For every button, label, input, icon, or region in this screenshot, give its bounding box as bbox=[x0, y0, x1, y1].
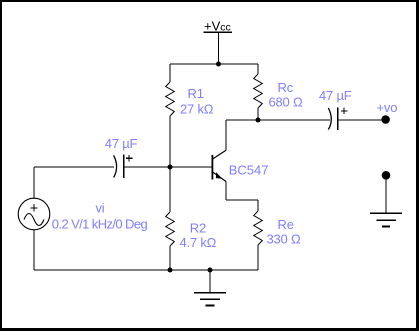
junction R2 ground bbox=[168, 268, 173, 273]
svg-text:R2: R2 bbox=[190, 221, 206, 236]
svg-text:0.2 V/1 kHz/0 Deg: 0.2 V/1 kHz/0 Deg bbox=[52, 217, 148, 232]
svg-text:+Vcc: +Vcc bbox=[204, 19, 231, 34]
svg-text:47 µF: 47 µF bbox=[319, 88, 352, 103]
svg-text:330 Ω: 330 Ω bbox=[267, 232, 302, 247]
ground right bbox=[370, 179, 402, 226]
capacitor C1 47uF input bbox=[114, 155, 133, 179]
resistor R1 bbox=[166, 64, 175, 167]
terminal ground reference bbox=[382, 171, 391, 180]
junction top rail bbox=[216, 62, 221, 67]
wire input bbox=[34, 166, 114, 168]
transistor Q1 BC547 bbox=[212, 120, 227, 200]
svg-text:27 kΩ: 27 kΩ bbox=[180, 101, 214, 116]
source V1 sine bbox=[18, 198, 50, 230]
wire base bbox=[124, 166, 212, 168]
svg-text:Rc: Rc bbox=[278, 80, 294, 95]
svg-text:+vo: +vo bbox=[377, 100, 398, 115]
junction base node bbox=[168, 165, 173, 170]
junction ground center bbox=[208, 268, 213, 273]
power +Vcc bbox=[203, 19, 232, 65]
svg-text:BC547: BC547 bbox=[229, 163, 269, 178]
svg-text:4.7 kΩ: 4.7 kΩ bbox=[180, 235, 217, 250]
resistor Rc bbox=[254, 64, 263, 120]
terminal +vo bbox=[381, 115, 390, 124]
svg-text:680 Ω: 680 Ω bbox=[269, 95, 304, 110]
wire ground rail bbox=[34, 269, 258, 271]
wire output bbox=[339, 119, 382, 121]
wire emitter run bbox=[226, 199, 258, 201]
svg-text:Re: Re bbox=[278, 217, 294, 232]
wire source top lead bbox=[33, 167, 35, 198]
resistor R2 bbox=[166, 167, 175, 270]
svg-text:47 µF: 47 µF bbox=[105, 136, 138, 151]
svg-text:R1: R1 bbox=[188, 86, 204, 101]
wire top rail bbox=[170, 63, 258, 65]
wire collector rail bbox=[226, 119, 330, 121]
ground main bbox=[194, 270, 226, 306]
resistor Re bbox=[254, 200, 263, 270]
capacitor C2 47uF output bbox=[328, 107, 347, 130]
wire source bottom lead bbox=[33, 230, 35, 270]
svg-text:vi: vi bbox=[96, 201, 105, 216]
junction collector rail bbox=[256, 118, 261, 123]
